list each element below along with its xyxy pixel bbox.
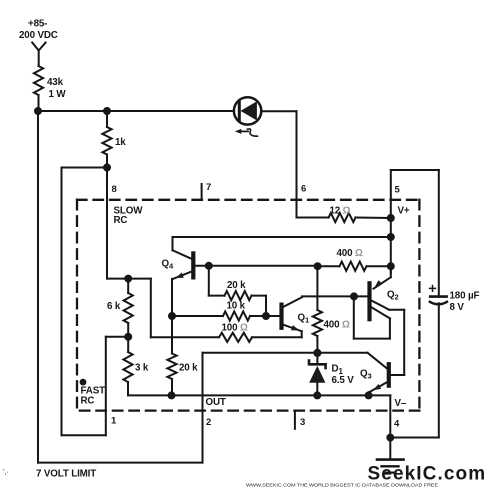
svg-text:OUT: OUT [206, 397, 226, 408]
IC outline dashed box [77, 200, 419, 411]
svg-text:43k: 43k [47, 77, 64, 88]
svg-text:Q4: Q4 [162, 259, 174, 271]
resistor R 12 ohm [297, 213, 391, 222]
node junction 400v bottom on OUT rail [314, 350, 320, 356]
svg-text:Q3: Q3 [360, 369, 372, 381]
wire LED to pin6 [261, 111, 296, 217]
svg-text:5: 5 [395, 185, 401, 196]
svg-text:+85-: +85- [28, 19, 47, 30]
svg-text:20 k: 20 k [227, 280, 246, 291]
svg-text:3: 3 [300, 417, 305, 428]
svg-text:1k: 1k [115, 137, 126, 148]
node junction 400ohm left [315, 263, 321, 269]
svg-text:V+: V+ [398, 206, 410, 217]
wire pin1 vertical [105, 337, 107, 436]
label +85-200 VDC [19, 19, 58, 42]
wire bottom right y=437.5 [390, 437, 439, 439]
wire Q2 base line y=296.4 [302, 295, 368, 297]
svg-text:7: 7 [206, 182, 211, 193]
svg-text:1 W: 1 W [49, 89, 67, 100]
wire OUT pin2 vertical [202, 353, 204, 463]
svg-text:10 k: 10 k [227, 301, 246, 312]
node junction D1 bottom [314, 392, 320, 398]
node junction 6k top [125, 276, 131, 282]
wire outer right x=438.8 [438, 170, 440, 438]
svg-text:2: 2 [206, 417, 211, 428]
svg-text:6: 6 [301, 184, 306, 195]
node junction 1k bottom / pin8 [104, 165, 110, 171]
label FAST RC [81, 386, 106, 407]
label 43k 1W [47, 77, 66, 100]
node junction D1 top [314, 350, 320, 356]
wire collector top link y=237 [173, 236, 391, 238]
svg-text:20 k: 20 k [179, 363, 198, 374]
node fast-rc dot [81, 380, 86, 385]
node junction Q2 base [351, 293, 357, 299]
ground [377, 438, 404, 473]
label 180uF 8V [450, 291, 480, 314]
wire pin1 to left branch jog [62, 434, 106, 436]
node junction 12ohm right V+ [388, 215, 394, 221]
resistor R 100 ohm [151, 279, 302, 342]
svg-text:RC: RC [114, 215, 128, 226]
svg-text:400 Ω: 400 Ω [324, 320, 350, 331]
svg-text:100 Ω: 100 Ω [222, 323, 248, 334]
transistor Q4 [173, 237, 194, 279]
node junction 20k bottom on V- rail [169, 392, 175, 398]
wire top rail y=111 [38, 110, 234, 112]
resistor R 3k [123, 352, 132, 395]
wire V- rail y=395.4 [128, 394, 390, 396]
svg-text:200 VDC: 200 VDC [19, 30, 58, 41]
resistor R 43k 1W [34, 66, 43, 111]
wire pin5 V+ vertical [390, 170, 392, 273]
node +85-200VDC supply terminal [32, 43, 45, 67]
wire slow-rc branch y=167.5 [62, 167, 108, 169]
node junction Q4 base [206, 263, 212, 269]
svg-text:400 Ω: 400 Ω [337, 248, 363, 259]
zener diode D1 6.5V [309, 353, 326, 396]
resistor R 400 ohm horizontal [318, 262, 391, 271]
wire 6k bottom to pin1 [106, 336, 128, 338]
svg-text:1: 1 [111, 416, 117, 427]
svg-text:V–: V– [395, 398, 407, 409]
label SLOW RC [114, 206, 144, 227]
svg-text:WWW.SEEKIC.COM THE WORLD BIGGE: WWW.SEEKIC.COM THE WORLD BIGGEST IC DATA… [246, 483, 438, 488]
transistor Q2 [354, 266, 404, 375]
node junction Q3 emitter on V- rail [366, 392, 372, 398]
wire top right box y=170 [391, 169, 439, 171]
pin 7 stub [201, 184, 203, 200]
LED indicator [234, 97, 261, 124]
node junction pin4/ground/cap [387, 435, 393, 441]
resistor R 20k vertical [167, 354, 176, 396]
svg-text:8 V: 8 V [450, 302, 465, 313]
transistor Q3 [368, 353, 405, 396]
svg-text:Q1: Q1 [298, 313, 310, 325]
wire Q4 emitter column [171, 279, 173, 354]
wire OUT rail y=352.8 [203, 352, 368, 354]
svg-text:SeekIC.com: SeekIC.com [368, 464, 487, 485]
wire feedback left x=38 [37, 111, 39, 463]
node junction y=237 right [388, 234, 394, 240]
resistor R 20k horizontal [209, 266, 266, 316]
pin 3 stub [294, 411, 296, 429]
resistor R 6k [124, 279, 133, 352]
svg-text:6.5 V: 6.5 V [332, 375, 355, 386]
wire 7-volt-limit bottom y=462.6 [38, 462, 203, 464]
node junction 10k left [169, 313, 175, 319]
svg-text:4: 4 [394, 419, 400, 430]
LED light arrow symbol [235, 129, 258, 136]
node junction 10k/20k at Q1 base [263, 313, 269, 319]
node junction 1k top [104, 108, 110, 114]
svg-text:8: 8 [112, 184, 117, 195]
resistor R 10k [172, 311, 266, 320]
wire pin4 V- vertical [389, 395, 391, 437]
svg-text:’,·: ’,· [3, 469, 9, 476]
capacitor C 180uF 8V [430, 286, 447, 305]
svg-text:6 k: 6 k [107, 301, 121, 312]
resistor R 1k [102, 111, 111, 168]
svg-text:12 Ω: 12 Ω [330, 206, 351, 217]
wire 6k top link [107, 278, 151, 280]
wire Q4 base line y=265.8 [195, 265, 317, 267]
node junction 6k bottom [125, 334, 131, 340]
node junction 400ohm right / Q2 emitter [388, 263, 394, 269]
svg-text:RC: RC [81, 396, 95, 407]
svg-text:180 µF: 180 µF [450, 291, 480, 302]
transistor Q1 [266, 297, 302, 337]
node junction 43k/feedback [35, 108, 41, 114]
resistor R 400 ohm vertical [313, 266, 322, 353]
label D1 6.5V [332, 364, 355, 387]
wire left branch x=61.5 down [61, 168, 63, 436]
wire pin8 vertical into IC [106, 168, 108, 279]
svg-text:Q2: Q2 [387, 290, 399, 302]
svg-text:7 VOLT LIMIT: 7 VOLT LIMIT [36, 469, 96, 480]
svg-text:3 k: 3 k [135, 363, 149, 374]
